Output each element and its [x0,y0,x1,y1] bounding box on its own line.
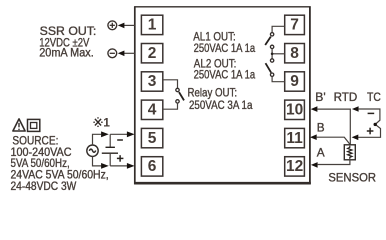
wire node B to RTD top [316,137,350,144]
terminal 1 [141,15,162,34]
battery plates [106,146,115,148]
terminal 8 [285,44,305,63]
svg-text:24-48VDC 3W: 24-48VDC 3W [11,179,78,193]
panel outline (controller rear view) [134,6,311,184]
arrow to plus [118,23,125,29]
arrow on neutral wire [101,163,109,169]
plus polarity mark [117,155,124,162]
wire battery branch to terminal5 [110,133,128,135]
terminal 9 [285,72,305,91]
terminal 5 [141,128,162,147]
svg-text:250VAC 1A 1a: 250VAC 1A 1a [194,68,256,82]
wire relay contact to terminal4 [163,103,178,109]
svg-text:B': B' [315,90,325,104]
sensor heading labels B' RTD TC [315,90,381,104]
svg-text:B: B [317,120,325,134]
arrow on live wire [101,131,109,137]
SOURCE label [11,133,109,193]
terminal 12 [285,157,305,176]
SSR minus terminal symbol [108,49,117,58]
TC plus mark [367,128,374,135]
class II double square symbol [28,119,40,131]
terminal 11 [285,128,305,147]
terminal 4 [141,100,162,119]
svg-text:TC: TC [367,90,381,104]
arrow into terminal5 [127,131,135,137]
Relay OUT label [188,86,253,112]
terminal 2 [141,44,162,63]
terminal 3 [141,72,162,91]
SSR OUT label [39,24,96,59]
terminal 10 [285,100,305,119]
arrow at RTD junction from TC minus [352,106,359,112]
arrow from TC plus into node B level [352,135,359,141]
svg-text:7: 7 [290,17,299,34]
wire AL1 lower contact to junction to terminal8 [271,49,273,59]
wire terminal2 to minus [124,52,135,54]
arrow to minus [118,51,125,57]
svg-text:250VAC 3A 1a: 250VAC 3A 1a [189,98,253,112]
RTD sensor body [344,145,355,160]
arrow into terminal6 [127,163,135,169]
svg-text:RTD: RTD [334,90,358,104]
svg-text:5: 5 [148,130,157,147]
wire B' / RTD top [317,109,350,145]
arrow into terminal11 [310,134,317,140]
svg-text:4: 4 [148,102,157,119]
AC source symbol [87,145,98,156]
TC minus mark [368,112,375,114]
svg-text:8: 8 [290,45,299,62]
AL2 contact (1a) [266,59,274,77]
relay contact (3A 1a) [176,88,184,103]
battery negative stem [109,153,111,166]
wire AC source top to terminal5 [93,134,102,145]
warning triangle symbol [13,119,25,131]
svg-text:12: 12 [286,158,303,175]
wire terminal7 to AL1 contact [272,26,285,32]
AL2 OUT label [194,56,256,81]
svg-text:6: 6 [148,158,157,175]
svg-text:A: A [317,146,325,160]
minus polarity mark [117,139,123,141]
terminal 7 [285,15,305,34]
svg-text:1: 1 [103,115,110,129]
wire RTD bottom to node A [317,160,350,165]
arrow into terminal10 [311,106,318,112]
arrow into terminal12 [311,162,318,168]
junction dot node 8 [271,53,274,56]
wire battery branch to terminal6 [110,165,128,167]
svg-text:11: 11 [286,130,303,147]
svg-text:2: 2 [148,45,157,62]
svg-text:1: 1 [148,17,157,34]
svg-text:3: 3 [148,73,157,90]
thermocouple junction dot [374,123,377,126]
svg-text:SENSOR: SENSOR [328,170,376,184]
wire TC minus lead [358,109,380,137]
battery positive stem [109,134,111,147]
wire AC source bottom to terminal6 [93,156,102,166]
terminal 6 [141,157,162,176]
AL1 OUT label [193,30,255,55]
svg-text:20mA Max.: 20mA Max. [39,46,94,60]
wire terminal1 to plus [124,24,135,26]
wire terminal3 to relay contact [163,80,178,89]
AL1 contact (1a) [265,33,274,49]
svg-text:9: 9 [290,73,299,90]
SSR plus terminal symbol [108,21,117,30]
svg-text:250VAC 1A 1a: 250VAC 1A 1a [194,41,256,55]
wire AL2 lower contact to terminal9 [272,76,285,81]
svg-text:10: 10 [286,102,303,119]
note mark ※1 [93,117,102,127]
